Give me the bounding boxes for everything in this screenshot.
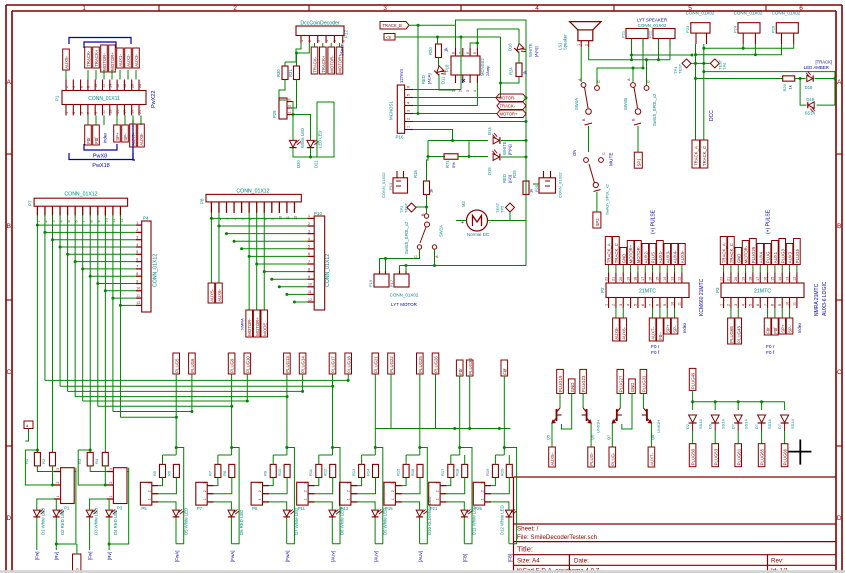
connector P20 [539, 178, 556, 193]
svg-text:TRACK_A: TRACK_A [694, 146, 699, 166]
svg-text:A: A [7, 79, 12, 86]
global label TRACK- [497, 102, 526, 110]
svg-text:AUX4-: AUX4- [673, 250, 678, 263]
led D16 [514, 43, 527, 56]
svg-text:3: 3 [304, 482, 308, 484]
svg-text:[FwA]: [FwA] [174, 550, 179, 562]
svg-text:TRACK_A: TRACK_A [722, 243, 727, 263]
wire P15 input [406, 454, 420, 456]
svg-text:TRACK+: TRACK+ [94, 49, 99, 67]
svg-text:2Amp: 2Amp [485, 65, 490, 76]
svg-text:D6 RED LED: D6 RED LED [239, 510, 244, 535]
bracket PwX8 [84, 144, 117, 150]
svg-text:4: 4 [473, 90, 477, 92]
svg-text:P22: P22 [648, 30, 653, 38]
wire P8 pins to motor labels [248, 213, 250, 310]
svg-text:12: 12 [678, 277, 682, 281]
wire P16 pin3 [413, 113, 497, 115]
svg-text:Q5: Q5 [547, 435, 551, 440]
global label AUX5- [63, 49, 70, 70]
svg-text:1: 1 [407, 126, 411, 128]
svg-text:4: 4 [741, 304, 745, 306]
wire P8 resistor bottoms [269, 478, 273, 486]
svg-text:7: 7 [763, 304, 767, 306]
diode SS14 4 [761, 402, 763, 410]
wire P21 led bottom [463, 518, 465, 544]
svg-text:AUX5-: AUX5- [210, 288, 215, 301]
svg-text:1k: 1k [429, 189, 434, 193]
wire P15 right loop [420, 448, 428, 544]
svg-text:MUTE: MUTE [609, 152, 615, 166]
wire Q7 Q8 gnd middle [622, 394, 632, 430]
svg-text:[P(N)]: [P(N)] [507, 145, 512, 155]
svg-text:R71: R71 [445, 160, 450, 168]
wire SW2A up [426, 207, 428, 214]
wire speaker pin1 down [580, 47, 582, 82]
svg-text:R7: R7 [207, 470, 212, 476]
svg-text:R13: R13 [351, 468, 356, 476]
svg-text:PLUG23: PLUG23 [581, 375, 586, 392]
diode SS14 3 [737, 402, 739, 410]
svg-text:MOTOR-: MOTOR- [636, 245, 641, 263]
svg-text:AUX3: AUX3 [788, 251, 793, 263]
svg-text:File: SmileDecoderTester.sch: File: SmileDecoderTester.sch [517, 534, 598, 541]
diode D19 amber [817, 79, 835, 106]
svg-text:6: 6 [466, 52, 470, 54]
svg-text:R16: R16 [410, 468, 415, 476]
svg-text:P1: P1 [55, 95, 60, 101]
svg-text:(+) PULSE: (+) PULSE [766, 209, 772, 234]
svg-text:P21: P21 [430, 506, 438, 511]
svg-text:F0r: F0r [766, 327, 771, 334]
svg-text:CONN_01X02: CONN_01X02 [638, 23, 667, 28]
wire P19 P17 stubs [385, 259, 387, 272]
wire P18 pin8 top [455, 25, 457, 48]
svg-text:10: 10 [308, 283, 312, 287]
svg-text:P13: P13 [388, 182, 393, 190]
global label AUX6- (P8) [216, 283, 223, 303]
svg-text:2: 2 [391, 490, 395, 492]
svg-text:PLUG21: PLUG21 [373, 356, 378, 373]
svg-text:CONN_01X02: CONN_01X02 [734, 11, 763, 16]
svg-text:GND: GND [570, 383, 575, 393]
svg-text:[FB]: [FB] [507, 554, 512, 562]
svg-text:1k: 1k [788, 85, 793, 89]
svg-text:TRACK_C: TRACK_C [702, 146, 707, 166]
wire P3 r2 to pin2 [104, 466, 106, 485]
svg-text:17: 17 [123, 110, 127, 114]
svg-text:P16: P16 [396, 135, 405, 140]
global label PLUG30 [466, 360, 473, 376]
global label TRACK_B [380, 22, 409, 30]
svg-text:CONN_01X02: CONN_01X02 [686, 11, 715, 16]
wire P25 input [495, 454, 504, 456]
svg-text:PLUG13: PLUG13 [285, 356, 290, 373]
svg-text:GND: GND [736, 254, 741, 264]
svg-text:P17: P17 [389, 279, 394, 287]
svg-text:5: 5 [136, 250, 138, 254]
svg-text:R5: R5 [152, 470, 157, 476]
connector P21 [429, 482, 440, 505]
svg-text:3: 3 [619, 304, 623, 306]
svg-text:D21: D21 [314, 160, 319, 168]
svg-text:7: 7 [136, 265, 138, 269]
svg-text:Title:: Title: [517, 545, 533, 554]
svg-text:PLUG43: PLUG43 [736, 326, 741, 343]
svg-text:R20: R20 [499, 468, 504, 476]
svg-text:R8: R8 [222, 470, 227, 476]
svg-text:CONN_01X12: CONN_01X12 [153, 254, 159, 287]
svg-text:Size: A4: Size: A4 [517, 558, 540, 565]
global label PLUG25 [417, 353, 424, 374]
svg-text:Index: Index [797, 322, 802, 333]
svg-text:C: C [837, 369, 842, 376]
global label MOTOR- (P12) [328, 47, 335, 74]
svg-text:F0--: F0-- [658, 331, 663, 339]
svg-text:NMRA 21MTC: NMRA 21MTC [814, 283, 820, 316]
svg-text:TRACK-: TRACK- [86, 50, 91, 67]
svg-text:16: 16 [116, 84, 120, 88]
diode SS14 2 [714, 402, 716, 410]
global label PLUG13 [284, 353, 291, 374]
svg-text:SP-: SP- [788, 325, 793, 333]
wire P7 resistor bottoms [214, 478, 218, 486]
svg-text:PLUG18: PLUG18 [346, 356, 351, 373]
small box label cell1 [24, 421, 33, 429]
global label MOTOR- (P1 top) [101, 45, 108, 72]
svg-text:CONN_01X11: CONN_01X11 [88, 96, 120, 102]
global labels above P3 [723, 265, 725, 273]
svg-text:PLUS: PLUS [651, 252, 656, 263]
svg-text:3: 3 [383, 5, 387, 12]
svg-text:R6: R6 [166, 470, 171, 476]
svg-text:4: 4 [308, 237, 310, 241]
svg-text:P19: P19 [368, 279, 373, 287]
svg-text:CONN_01X12: CONN_01X12 [236, 189, 269, 195]
global label MOTOR+ (P1 top) [109, 45, 116, 72]
svg-text:F0 r: F0 r [651, 344, 660, 350]
wire rail 4 to border [704, 72, 835, 79]
svg-text:C: C [602, 152, 606, 155]
svg-text:5: 5 [473, 52, 477, 54]
global label PLUG61 [735, 444, 742, 467]
wire P16 pin5 [413, 97, 501, 99]
svg-text:1: 1 [480, 498, 484, 500]
svg-text:12: 12 [793, 277, 797, 281]
wire P8 led bottom [286, 518, 288, 544]
global label PLUG18 [345, 353, 352, 374]
wire P29 pin2 stub [292, 107, 296, 109]
svg-text:P29: P29 [272, 110, 277, 118]
svg-text:SS14: SS14 [721, 418, 726, 429]
svg-text:R14: R14 [366, 468, 371, 476]
svg-text:AUX7-: AUX7- [650, 452, 655, 465]
svg-text:TRACK+: TRACK+ [321, 55, 326, 73]
wire bottom bus [376, 428, 511, 430]
svg-text:D5 White LED: D5 White LED [183, 508, 188, 535]
wire P3 led bottoms [89, 518, 91, 551]
wire P29 pin3 to LEDs [292, 102, 293, 141]
svg-text:PLUG53: PLUG53 [713, 448, 718, 465]
connector P25 [473, 482, 484, 505]
led D10 [416, 509, 427, 516]
global labels above P2 [608, 265, 610, 273]
svg-text:[FwA]: [FwA] [230, 550, 235, 562]
resistor R71 [444, 154, 458, 160]
wire R31 bottom [292, 80, 297, 109]
connector P15 [384, 482, 395, 505]
diode D18 amber [795, 78, 806, 80]
labels Q7 Q8 bottom [609, 447, 616, 467]
svg-text:D11: D11 [441, 76, 446, 84]
svg-text:PwX22: PwX22 [151, 91, 157, 108]
svg-text:C: C [6, 369, 11, 376]
svg-text:MOTOR-: MOTOR- [499, 96, 517, 101]
svg-text:18: 18 [123, 84, 127, 88]
svg-text:TRACK-: TRACK- [313, 56, 318, 73]
wire P13 led bottom [374, 518, 376, 544]
svg-text:2: 2 [612, 304, 616, 306]
svg-text:16: 16 [648, 277, 652, 281]
transistor Q7 [612, 408, 622, 423]
svg-text:2: 2 [347, 490, 351, 492]
svg-text:AUX6-: AUX6- [621, 326, 626, 339]
svg-text:M2: M2 [461, 201, 466, 207]
svg-text:2: 2 [308, 222, 310, 226]
svg-text:P23: P23 [685, 25, 690, 33]
labels Q5 Q6 bottom [549, 447, 556, 467]
svg-text:P18: P18 [445, 64, 450, 72]
svg-text:D: D [6, 515, 11, 522]
svg-text:2: 2 [308, 40, 312, 42]
global label PLUG10 [244, 353, 251, 374]
svg-text:4: 4 [325, 40, 329, 42]
svg-text:TEST: TEST [678, 63, 683, 74]
wire P11 right loop [332, 448, 340, 544]
switch SW5A lower [593, 182, 598, 187]
global label MOTOR+ (P12) [336, 47, 343, 74]
svg-text:CONN_01X12: CONN_01X12 [64, 191, 97, 197]
svg-text:P13: P13 [341, 506, 349, 511]
wire P3 left loop [78, 450, 107, 485]
svg-text:UN61H: UN61H [596, 420, 601, 433]
wire P20 link [533, 183, 539, 185]
svg-text:R18: R18 [455, 468, 460, 476]
svg-text:d: d [26, 423, 28, 428]
wire P18 pin7 top [460, 37, 462, 90]
svg-text:4: 4 [407, 102, 411, 104]
svg-text:PLUG-: PLUG- [589, 452, 594, 466]
svg-text:B: B [837, 223, 841, 230]
led D8 [329, 509, 340, 516]
svg-text:SP+: SP+ [780, 324, 785, 333]
svg-text:8: 8 [136, 272, 138, 276]
wire R30 bottom [279, 80, 286, 101]
svg-text:R19: R19 [485, 468, 490, 476]
wire P21 resistor bottoms [447, 478, 451, 486]
wire P25 resistor bottoms [491, 478, 495, 486]
svg-text:MOTOR-: MOTOR- [744, 245, 749, 263]
svg-text:PLUG-: PLUG- [610, 452, 615, 466]
svg-text:MCNDS1: MCNDS1 [389, 101, 394, 120]
wire matrix P8 to P10 staircase [211, 217, 307, 219]
wire P18 pin6 [470, 43, 477, 48]
svg-text:19: 19 [626, 277, 630, 281]
svg-text:5: 5 [749, 304, 753, 306]
wire P29 pin1 [292, 115, 311, 141]
svg-text:D15: D15 [487, 167, 492, 175]
wire P7 pins 1 3 8 10 down to cells [36, 216, 38, 453]
svg-text:AUX7-: AUX7- [651, 326, 656, 339]
svg-text:9: 9 [778, 304, 782, 306]
svg-text:P12: P12 [344, 29, 349, 38]
connector P11 [297, 482, 308, 505]
wire P16 pin6 [413, 89, 461, 91]
svg-text:P21: P21 [621, 30, 626, 38]
svg-text:20: 20 [619, 277, 623, 281]
wire P3 pin1 to leds [90, 499, 107, 510]
svg-text:2: 2 [65, 86, 69, 88]
svg-text:5: 5 [634, 304, 638, 306]
diode SS14 1 [692, 402, 694, 410]
wire P13 right loop [375, 448, 383, 544]
svg-text:KCM660 21MTC: KCM660 21MTC [699, 278, 705, 316]
svg-text:SS14: SS14 [805, 111, 816, 116]
global label MOTOR+ (P8) [253, 310, 260, 337]
wire P1 r2 to pin2 [52, 466, 54, 485]
svg-text:1: 1 [436, 498, 440, 500]
svg-text:P8: P8 [200, 198, 205, 204]
wire P5 led bottom [175, 518, 177, 544]
svg-text:22: 22 [719, 277, 723, 281]
svg-text:1: 1 [288, 112, 292, 114]
global label PLUG14 [299, 353, 306, 374]
led D11 [461, 509, 472, 516]
svg-text:PLUG49: PLUG49 [691, 372, 696, 389]
svg-text:7: 7 [87, 112, 91, 114]
svg-text:3: 3 [203, 482, 207, 484]
global label TRACK_C vertical [700, 140, 708, 168]
svg-text:D: D [837, 515, 842, 522]
global labels below P2 [615, 308, 617, 318]
svg-text:R25: R25 [512, 170, 517, 178]
wire P25 right loop [504, 448, 516, 544]
svg-text:2: 2 [585, 44, 589, 46]
svg-text:White LED: White LED [300, 128, 305, 148]
svg-text:17: 17 [756, 277, 760, 281]
svg-text:6: 6 [136, 257, 138, 261]
global label MOTOR- (P8) [246, 310, 253, 337]
svg-text:14: 14 [663, 277, 667, 281]
svg-text:PLUG3: PLUG3 [780, 248, 785, 263]
wire R24 bottom [501, 77, 520, 84]
global label PLUG50 [689, 444, 696, 467]
svg-text:12: 12 [308, 298, 312, 302]
svg-text:3: 3 [109, 468, 113, 470]
svg-text:1: 1 [56, 496, 60, 498]
svg-text:Switch_SPDL_x2: Switch_SPDL_x2 [652, 93, 657, 126]
svg-text:P24: P24 [732, 25, 737, 33]
svg-text:PLUG25: PLUG25 [751, 246, 756, 263]
global label AUX1- (P1 top) [117, 48, 124, 68]
wire 9V rail [395, 36, 501, 38]
svg-text:TP5: TP5 [500, 205, 505, 213]
svg-text:6: 6 [641, 304, 645, 306]
svg-text:C: C [647, 80, 651, 83]
connector P17 [394, 274, 409, 287]
connector P7 [196, 482, 207, 505]
svg-text:13: 13 [785, 277, 789, 281]
global label PLUG66 [781, 444, 788, 467]
svg-text:D4 RED LED: D4 RED LED [113, 510, 118, 535]
svg-text:AUX1-: AUX1- [658, 250, 663, 263]
svg-text:F0 f: F0 f [651, 350, 660, 356]
svg-text:5: 5 [308, 245, 310, 249]
svg-text:Sheet: /: Sheet: / [517, 526, 539, 533]
led D2 red [53, 509, 64, 516]
svg-text:7: 7 [308, 260, 310, 264]
wire P13 input [362, 454, 376, 456]
svg-text:PLUG27: PLUG27 [618, 375, 623, 392]
svg-text:2: 2 [727, 304, 731, 306]
wire P15 led bottom [419, 518, 421, 544]
wire P1 left loop [25, 450, 54, 485]
led D21 [307, 140, 319, 148]
svg-text:Date:: Date: [574, 558, 589, 565]
wire P16 pin1 [413, 130, 453, 141]
svg-text:6: 6 [342, 40, 346, 42]
svg-text:SW4B: SW4B [623, 98, 628, 110]
global label below cell P1 [73, 554, 81, 573]
ic P18 driver [451, 56, 480, 75]
svg-text:20: 20 [734, 277, 738, 281]
global label PLUG49 [689, 368, 696, 390]
pin marker x P18 [462, 79, 465, 82]
connector P10 CONN_01X12 [314, 216, 325, 310]
svg-text:PLUG31: PLUG31 [642, 375, 647, 392]
svg-text:R20: R20 [428, 47, 433, 55]
wire P25 pin1 to led [491, 502, 509, 510]
svg-text:PLUG17: PLUG17 [331, 356, 336, 373]
svg-text:2: 2 [109, 482, 113, 484]
svg-text:2: 2 [288, 105, 292, 107]
global label PLUG65 [758, 444, 765, 467]
global label TRACK_A vertical [692, 140, 700, 168]
svg-text:PLUG61: PLUG61 [736, 448, 741, 465]
svg-text:P15: P15 [385, 506, 393, 511]
global label TRACK+ (P1 top) [93, 47, 100, 68]
wire P7 input [218, 454, 232, 456]
connector P29 [279, 98, 287, 119]
svg-text:P5: P5 [141, 506, 147, 511]
svg-text:[ACA]: [ACA] [427, 74, 432, 84]
svg-text:10: 10 [279, 216, 283, 220]
led D20 [289, 140, 301, 148]
wire P8 pin1 pin2 to labels [210, 213, 212, 283]
svg-text:D10 OLDWhite LED: D10 OLDWhite LED [427, 497, 432, 535]
global label MOTOR+ [497, 110, 526, 118]
svg-text:D18: D18 [805, 85, 813, 90]
svg-text:WHITE: WHITE [528, 43, 533, 57]
svg-text:PLUG6: PLUG6 [190, 358, 195, 373]
svg-text:1: 1 [203, 498, 207, 500]
svg-text:4: 4 [136, 243, 138, 247]
svg-text:2: 2 [56, 482, 60, 484]
wire P7 led bottom [230, 518, 232, 544]
wire P21 input [451, 454, 460, 456]
wire LED bottoms [293, 148, 317, 157]
svg-text:[Fw]: [Fw] [35, 552, 40, 561]
